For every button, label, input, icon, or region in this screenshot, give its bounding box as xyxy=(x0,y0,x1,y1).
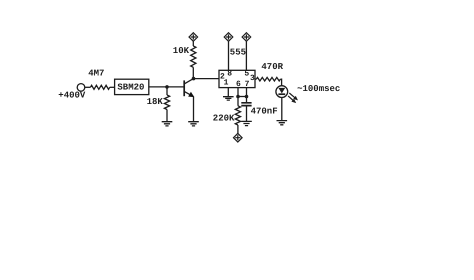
wire pin7 node to capacitor 470nF xyxy=(246,97,248,103)
svg-text:470nF: 470nF xyxy=(251,106,278,116)
power symbol +V below 220K xyxy=(234,133,243,142)
wire power to pin 8 xyxy=(228,41,230,70)
wire emitter to ground xyxy=(193,97,195,122)
wire resistor 18K to ground xyxy=(166,110,168,122)
svg-text:555: 555 xyxy=(230,48,246,58)
LED D1 cathode bar xyxy=(278,93,285,95)
LED D1 triangle xyxy=(278,88,285,94)
transistor Q1 emitter stroke with arrow xyxy=(184,91,193,96)
svg-text:5: 5 xyxy=(244,70,249,79)
terminal +400V input xyxy=(77,84,85,92)
LED light arrow 2 xyxy=(288,96,294,101)
junction node pin 7 xyxy=(245,95,249,99)
wire pin 7 down xyxy=(246,88,248,97)
wire resistor 470R to LED anode xyxy=(280,79,281,86)
resistor 470R xyxy=(256,77,280,81)
wire resistor 4M7 to SBM20 xyxy=(110,86,115,88)
ground under LED xyxy=(277,121,288,125)
wire resistor 10K to collector node xyxy=(192,67,194,78)
junction node pin 6 xyxy=(236,95,240,99)
power symbol +V above pin 5 xyxy=(242,33,251,42)
svg-text:3: 3 xyxy=(250,74,255,83)
transistor Q1 base bar xyxy=(183,80,185,96)
wire pin 1 to ground xyxy=(227,88,229,97)
svg-text:8: 8 xyxy=(227,70,232,79)
power symbol +V above pin 8 xyxy=(224,33,233,42)
svg-text:10K: 10K xyxy=(173,46,190,56)
junction node at 18K xyxy=(165,85,169,89)
wire power to resistor 10K xyxy=(192,41,194,46)
power symbol +V above 10K xyxy=(189,33,198,42)
resistor 10K xyxy=(191,46,196,67)
svg-text:18K: 18K xyxy=(147,97,164,107)
geiger tube SBM20 box xyxy=(115,79,149,94)
wire junction to resistor 18K xyxy=(166,87,168,95)
wire LED cathode to ground xyxy=(281,98,283,121)
wire resistor 220K to power xyxy=(237,125,239,134)
capacitor 470nF plates xyxy=(241,103,251,106)
svg-text:470R: 470R xyxy=(261,62,283,72)
wire capacitor 470nF to ground xyxy=(246,106,248,121)
ground under 18K xyxy=(162,122,173,126)
transistor Q1 collector stroke xyxy=(184,79,193,84)
resistor 4M7 xyxy=(90,85,109,89)
IC 555 body xyxy=(219,70,255,87)
svg-text:~100msec: ~100msec xyxy=(297,84,340,94)
wire joining pins 6 and 7 xyxy=(238,96,247,98)
junction node collector xyxy=(192,77,196,81)
resistor 220K xyxy=(235,106,240,125)
ground under capacitor xyxy=(241,121,252,125)
svg-text:SBM20: SBM20 xyxy=(117,83,144,93)
wire collector node to 555 pin 2 xyxy=(194,78,220,80)
LED light arrow 1 xyxy=(289,93,295,98)
ground under emitter xyxy=(188,122,199,126)
resistor 18K xyxy=(164,95,169,110)
wire pin 3 to resistor 470R xyxy=(255,78,256,80)
svg-text:220K: 220K xyxy=(213,113,235,123)
LED D1 body xyxy=(276,86,288,98)
wire pin 6 down xyxy=(237,88,239,97)
wire power to pin 5 xyxy=(245,41,247,70)
svg-text:1: 1 xyxy=(224,78,229,87)
wire SBM20 to transistor base xyxy=(149,86,184,88)
svg-text:+400V: +400V xyxy=(58,91,86,101)
ground under pin 1 xyxy=(223,97,234,100)
svg-text:4M7: 4M7 xyxy=(88,69,104,79)
wire pin6 node to resistor 220K xyxy=(237,97,239,106)
wire terminal to resistor 4M7 xyxy=(85,86,91,88)
